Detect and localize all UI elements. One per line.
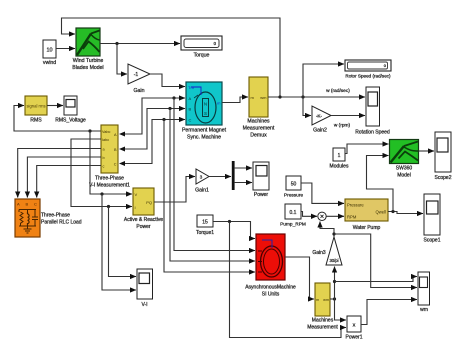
svg-text:Modules: Modules — [330, 164, 349, 170]
wire RMS to RMS_Voltage scope — [47, 105, 63, 107]
svg-text:V: V — [135, 192, 138, 197]
gain Gain3 (30/pi, points up) — [312, 237, 342, 265]
svg-text:RMS_Voltage: RMS_Voltage — [55, 118, 86, 124]
svg-text:C: C — [34, 202, 37, 207]
svg-text:Power1: Power1 — [346, 335, 363, 341]
svg-text:-1: -1 — [134, 72, 139, 78]
svg-text:Sync. Machine: Sync. Machine — [187, 135, 221, 141]
svg-text:Machines: Machines — [247, 119, 270, 125]
wire junction down to Gain — [117, 44, 127, 75]
svg-text:RPM: RPM — [347, 215, 357, 220]
scope RMS_Voltage — [55, 96, 86, 124]
svg-text:Water Pump: Water Pump — [353, 225, 381, 231]
product circle — [318, 212, 326, 220]
svg-text:I: I — [135, 205, 136, 210]
svg-text:Gain3: Gain3 — [312, 250, 326, 256]
node junction wm to mux in1 — [333, 280, 336, 283]
svg-text:Wind Turbine: Wind Turbine — [73, 58, 104, 64]
wire c to RLC C — [37, 166, 101, 198]
node junction V to scope — [100, 192, 103, 195]
svg-text:0.1: 0.1 — [290, 210, 297, 216]
svg-text:Permanent Magnet: Permanent Magnet — [182, 128, 227, 134]
wire Pump_RPM to product — [301, 212, 317, 217]
wire mux out2 to Power scope — [235, 182, 252, 184]
mux bar — [232, 161, 235, 190]
svg-text:Measurement: Measurement — [307, 325, 338, 331]
svg-text:Tm: Tm — [188, 85, 194, 90]
svg-text:Pump_RPM: Pump_RPM — [280, 222, 306, 228]
block Permanent Magnet Sync. Machine — [182, 82, 227, 141]
svg-text:Measurement: Measurement — [243, 126, 275, 132]
wire Torque1 to ASM Tm — [213, 222, 255, 239]
wire wind turbine out to Torque display — [100, 43, 180, 45]
svg-text:Qwell: Qwell — [376, 210, 387, 215]
scope wm — [418, 272, 430, 313]
svg-text:Iabc: Iabc — [102, 138, 109, 142]
node junction Vabc to PQ — [88, 129, 91, 132]
svg-text:15: 15 — [202, 220, 208, 226]
node junction loop — [278, 95, 281, 98]
wire Modules to SW360 in1 — [345, 144, 389, 154]
wire Gain1 to mux — [209, 176, 231, 178]
node tap B / wire down to ASM B — [168, 107, 171, 110]
svg-text:30/pi: 30/pi — [329, 258, 338, 263]
wire Vabc up to RMS — [14, 106, 101, 132]
gain Gain1 (3) — [195, 169, 209, 194]
svg-text:Three-Phase: Three-Phase — [41, 213, 70, 219]
wire branch down to Gain2 — [303, 97, 311, 116]
svg-text:c: c — [103, 165, 105, 169]
wire Qwell to Scope1 — [388, 212, 423, 214]
constant Pump_RPM (0.1) — [280, 204, 306, 228]
block Machines Measurement Demux — [243, 77, 275, 139]
svg-text:Machines: Machines — [312, 318, 334, 324]
svg-text:RMS: RMS — [30, 118, 42, 124]
block Three-Phase Parallel RLC Load — [15, 199, 82, 237]
svg-text:wm: wm — [323, 298, 329, 302]
svg-text:AsynchronousMachine: AsynchronousMachine — [245, 285, 296, 291]
svg-text:Demux: Demux — [250, 133, 267, 139]
wire Qwell feedback to SW360 in2 — [367, 156, 394, 212]
svg-text:b: b — [103, 156, 105, 160]
scope Power — [253, 162, 269, 198]
node tap A / wire down to ASM A — [172, 96, 175, 99]
svg-text:1: 1 — [338, 153, 341, 159]
svg-text:Scope1: Scope1 — [424, 238, 441, 244]
scope Scope1 — [424, 194, 441, 244]
svg-text:B: B — [189, 107, 192, 112]
svg-text:Scope2: Scope2 — [435, 175, 452, 181]
svg-text:Pressure: Pressure — [284, 193, 304, 199]
wire I down to V-I scope in1 — [109, 207, 137, 277]
node tap C / wire down to ASM C — [162, 118, 165, 121]
node junction Qwell feedback — [391, 210, 394, 213]
node junction rotor branch — [301, 95, 304, 98]
svg-text:PQ: PQ — [146, 200, 152, 205]
svg-text:Power: Power — [136, 224, 151, 230]
wire Power1 out to wm mux in3 — [361, 300, 417, 325]
wire PQ out to Gain1 — [154, 177, 195, 203]
svg-text:Torque: Torque — [194, 53, 210, 59]
wire Gain to PMSM Tm — [150, 74, 185, 87]
svg-text:signal rms: signal rms — [26, 104, 45, 109]
svg-text:C: C — [189, 118, 192, 123]
wire b to RLC B — [27, 157, 101, 198]
wire V down to V-I scope in2 — [102, 194, 136, 290]
node junction Gain3 out — [332, 232, 335, 235]
node junction Torque1 branch — [228, 220, 231, 223]
svg-text:Three-Phase: Three-Phase — [95, 176, 124, 182]
display Torque — [181, 36, 222, 59]
wire vwind to wind turbine — [56, 48, 75, 50]
svg-text:A: A — [17, 202, 20, 207]
svg-text:w (rpm): w (rpm) — [334, 123, 351, 129]
wire branch up to Rotor Speed display — [303, 64, 344, 97]
wire a to RLC A — [18, 149, 101, 198]
svg-text:Gain1: Gain1 — [195, 188, 209, 194]
wire mux out1 to Power scope — [235, 167, 252, 169]
wire ASM m out to Machines Measurement — [285, 257, 314, 299]
svg-text:Parallel RLC Load: Parallel RLC Load — [41, 220, 82, 226]
wire wm net to wm mux in1 — [335, 277, 418, 282]
wire Vabc branch down to PQ V — [90, 131, 132, 194]
svg-text:A: A — [189, 96, 192, 101]
scope Rotation Speed — [355, 87, 390, 136]
svg-text:m: m — [316, 298, 319, 302]
svg-text:50: 50 — [291, 182, 297, 188]
constant Modules (1) — [330, 148, 349, 170]
svg-text:Model: Model — [397, 173, 411, 179]
wire MM wm out to vertical net — [330, 298, 335, 300]
node junction on turbine output — [115, 42, 118, 45]
svg-text:Pressure: Pressure — [347, 203, 364, 208]
gain Gain (-1) — [128, 64, 150, 94]
svg-text:Torque1: Torque1 — [196, 230, 214, 236]
svg-text:Power: Power — [254, 192, 269, 198]
svg-text:N: N — [204, 102, 207, 107]
constant Torque1 (15) — [196, 215, 214, 236]
wire wm net up to Gain3 input — [334, 267, 336, 300]
block Power1 (x) — [346, 316, 363, 341]
svg-text:V-I: V-I — [141, 302, 147, 308]
wire demux wm out to Rotation Speed scope — [268, 96, 365, 98]
block Wind Turbine Blades Model — [72, 28, 103, 71]
display Rotor Speed (rad/sec) — [345, 60, 391, 79]
svg-text:Gain: Gain — [134, 88, 145, 94]
block SW360 Model — [390, 140, 419, 179]
wire phase C — [121, 120, 185, 164]
svg-text:Vabc: Vabc — [102, 130, 110, 134]
wire SW360 to Scope2 — [419, 150, 435, 152]
svg-text:Rotor Speed (rad/sec): Rotor Speed (rad/sec) — [345, 74, 391, 79]
svg-text:Gain2: Gain2 — [313, 128, 327, 134]
gain Gain2 (-K-) — [312, 106, 331, 134]
svg-text:B: B — [26, 202, 29, 207]
constant vwind — [43, 40, 56, 58]
svg-text:C: C — [114, 163, 117, 167]
svg-text:SI Units: SI Units — [262, 292, 280, 298]
node junction I to scope — [107, 205, 110, 208]
constant Pressure (50) — [284, 176, 304, 199]
wire feedback loop top (demux wm to wind turbine in1) — [62, 18, 281, 97]
svg-text:wm: wm — [420, 307, 428, 313]
wire wm net down to Power1 in1 — [335, 299, 347, 320]
wire Torque1 down to Power1 in2 — [230, 222, 347, 338]
wire Gain2 to Rotation Speed scope in2 — [331, 115, 365, 117]
svg-text:Blades Model: Blades Model — [72, 65, 103, 71]
wire Gain3 out to wm mux in2 — [334, 234, 417, 288]
svg-text:vwind: vwind — [43, 60, 56, 66]
wire product to Water Pump RPM — [326, 215, 344, 217]
wire Pressure to Water Pump — [301, 183, 344, 203]
svg-text:-K-: -K- — [316, 114, 323, 119]
svg-text:wm: wm — [260, 95, 267, 100]
svg-text:10: 10 — [46, 48, 52, 54]
svg-text:x: x — [353, 323, 356, 329]
block RMS (signal rms) — [25, 96, 47, 124]
block AsynchronousMachine SI Units — [245, 234, 296, 298]
block Water Pump — [345, 199, 388, 231]
svg-text:V-I Measurement1: V-I Measurement1 — [89, 183, 130, 189]
block Active & Reactive Power (PQ) — [124, 188, 163, 230]
svg-text:S: S — [204, 111, 207, 116]
wire Iabc to PQ I — [71, 139, 132, 207]
svg-text:SW360: SW360 — [396, 166, 413, 172]
wire PMSM m out to demux — [222, 97, 248, 103]
wire phase B — [121, 109, 185, 150]
scope Scope2 — [435, 132, 452, 181]
scope V-I — [137, 269, 153, 308]
block Three-Phase V-I Measurement — [89, 125, 130, 189]
svg-text:w (rad/sec): w (rad/sec) — [326, 88, 350, 94]
svg-text:Rotation Speed: Rotation Speed — [355, 130, 390, 136]
svg-text:Active & Reactive: Active & Reactive — [124, 217, 163, 223]
wire Gain3 out up to product — [320, 222, 334, 238]
wire phase A (V-I to PMSM) — [121, 98, 185, 134]
block Machines Measurement — [307, 283, 338, 331]
